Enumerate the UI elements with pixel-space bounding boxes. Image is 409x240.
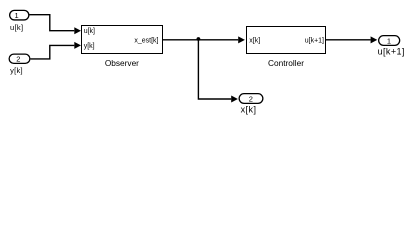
arrowhead at Observer in2 — [74, 42, 81, 49]
arrowhead at Controller in — [238, 36, 245, 43]
wire Controller out to outport 1 — [326, 39, 371, 41]
inport 1 oval — [10, 10, 29, 20]
svg-text:y[k]: y[k] — [84, 43, 95, 50]
junction node dot — [197, 37, 201, 41]
svg-text:1: 1 — [15, 11, 19, 20]
svg-text:x_est[k]: x_est[k] — [134, 37, 158, 44]
svg-text:u[k]: u[k] — [10, 23, 23, 32]
arrowhead at Observer in1 — [74, 27, 81, 34]
svg-text:Controller: Controller — [268, 58, 304, 68]
inport 2 oval — [9, 54, 30, 63]
outport 2 oval — [239, 94, 263, 104]
svg-text:Observer: Observer — [105, 58, 139, 68]
arrowhead at outport 1 — [371, 36, 378, 43]
svg-text:x[k]: x[k] — [241, 105, 257, 115]
Controller block — [247, 27, 326, 54]
svg-text:u[k]: u[k] — [84, 28, 95, 35]
arrowhead at outport 2 — [231, 96, 238, 103]
svg-text:u[k+1]: u[k+1] — [305, 37, 324, 44]
Observer block — [82, 26, 163, 54]
svg-text:2: 2 — [249, 94, 253, 103]
wire Observer out to Controller in — [163, 39, 239, 41]
wire inport2 to Observer in2 — [31, 45, 75, 59]
svg-text:x[k]: x[k] — [249, 37, 260, 44]
wire inport1 to Observer in1 — [30, 15, 75, 31]
svg-text:y[k]: y[k] — [10, 66, 23, 75]
svg-text:2: 2 — [16, 54, 20, 63]
outport 1 oval — [379, 36, 400, 46]
svg-text:1: 1 — [387, 36, 391, 45]
wire branch down to outport 2 — [198, 40, 231, 99]
svg-text:u[k+1]: u[k+1] — [378, 46, 405, 56]
